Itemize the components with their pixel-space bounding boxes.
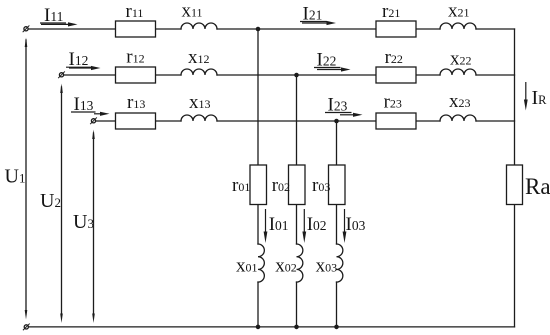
resistor Ra box xyxy=(507,165,523,205)
wire row1 right segment xyxy=(476,28,515,30)
resistor R02 box xyxy=(289,165,306,205)
junction dot row2 branch2 xyxy=(294,73,299,78)
junction dot bottom branch3 xyxy=(334,325,339,330)
resistor R23 box xyxy=(376,113,416,129)
svg-text:r13: r13 xyxy=(127,92,145,113)
terminal T1 xyxy=(23,26,29,32)
resistor R03 box xyxy=(329,165,346,205)
wire row3 left segment xyxy=(96,120,116,122)
current arrow I03 xyxy=(343,209,347,243)
resistor R22 box xyxy=(376,67,416,83)
wire row1 between r21 and x21 xyxy=(416,28,440,30)
wire right vertical lower xyxy=(514,205,516,327)
inductor x22 coil xyxy=(440,69,476,75)
wire branch2 lower xyxy=(296,282,298,327)
junction dot row1 branch1 xyxy=(256,27,261,32)
wire row1 between r11 and x11 xyxy=(156,28,182,30)
resistor R13 box xyxy=(116,113,156,129)
svg-text:r03: r03 xyxy=(312,175,330,196)
resistor R01 box xyxy=(250,165,267,205)
label I11 xyxy=(40,5,66,26)
wire branch3 lower xyxy=(336,282,338,327)
wire bottom bus xyxy=(29,326,515,328)
svg-text:I02: I02 xyxy=(307,214,327,235)
label I13 xyxy=(71,94,96,115)
wire branch2 vertical upper xyxy=(296,75,298,165)
junction dot bottom branch2 xyxy=(294,325,299,330)
svg-text:x11: x11 xyxy=(182,1,203,22)
wire row2 between r12 and x12 xyxy=(156,74,182,76)
inductor x01 coil xyxy=(258,244,264,282)
wire branch2 between r02 and x02 xyxy=(296,205,298,245)
wire row2 left segment xyxy=(64,74,116,76)
wire row3 between r13 and x13 xyxy=(156,120,182,122)
U2 arrowhead up xyxy=(60,84,63,94)
wire row2 right segment xyxy=(476,74,515,76)
svg-text:r21: r21 xyxy=(382,1,400,22)
wire branch3 between r03 and x03 xyxy=(336,205,338,245)
current arrow I23 xyxy=(340,113,363,117)
svg-text:x01: x01 xyxy=(236,256,258,277)
current arrow I11 xyxy=(41,22,78,26)
svg-text:r01: r01 xyxy=(232,175,250,196)
svg-text:r02: r02 xyxy=(272,175,290,196)
wire row2 from x12 to r22 xyxy=(217,74,376,76)
U3 arrowhead down xyxy=(92,314,95,324)
U2 arrowhead down xyxy=(60,314,63,324)
terminal T2 xyxy=(59,72,65,78)
current arrow I02 xyxy=(302,209,306,243)
svg-text:x23: x23 xyxy=(449,91,471,112)
svg-text:r12: r12 xyxy=(126,47,144,68)
junction dot bottom branch1 xyxy=(256,325,261,330)
U1 arrowhead down xyxy=(25,310,28,320)
svg-text:x03: x03 xyxy=(316,256,338,277)
label I22 xyxy=(314,50,341,71)
svg-text:x21: x21 xyxy=(448,1,470,22)
label I12 xyxy=(66,49,92,70)
svg-text:r11: r11 xyxy=(126,1,144,22)
voltage arrow U2 line xyxy=(61,87,63,315)
svg-text:I01: I01 xyxy=(269,214,289,235)
inductor x23 coil xyxy=(440,115,476,121)
voltage arrow U1 line xyxy=(25,40,27,311)
wire row3 from x13 to r23 xyxy=(217,120,376,122)
svg-text:U2: U2 xyxy=(40,190,61,212)
label I23 xyxy=(325,95,352,116)
svg-text:I03: I03 xyxy=(346,214,366,235)
junction dot row3 branch3 xyxy=(334,119,339,124)
wire row2 between r22 and x22 xyxy=(416,74,440,76)
svg-text:Ra: Ra xyxy=(525,174,550,199)
svg-text:x13: x13 xyxy=(189,92,211,113)
resistor R11 box xyxy=(116,21,156,37)
terminal T3 xyxy=(91,118,97,124)
terminal T0 bottom xyxy=(23,324,29,330)
current arrow I12 xyxy=(69,66,101,70)
U1 arrowhead up xyxy=(25,38,28,48)
wire branch1 vertical upper xyxy=(257,29,259,165)
wire row3 between r23 and x23 xyxy=(416,120,440,122)
svg-text:U3: U3 xyxy=(73,211,94,233)
inductor x03 coil xyxy=(337,244,343,282)
resistor R21 box xyxy=(376,21,416,37)
svg-text:r22: r22 xyxy=(385,47,403,68)
inductor x12 coil xyxy=(181,69,217,75)
current arrow IR xyxy=(524,82,528,111)
inductor x21 coil xyxy=(440,23,476,29)
resistor R12 box xyxy=(116,67,156,83)
label I21 xyxy=(300,4,327,25)
svg-text:IR: IR xyxy=(532,87,548,109)
current arrow I21 xyxy=(302,21,336,25)
wire branch3 vertical upper xyxy=(336,121,338,165)
voltage arrow U3 line xyxy=(93,133,95,315)
current arrow I01 xyxy=(264,209,268,243)
wire right vertical upper xyxy=(514,29,516,165)
inductor x11 coil xyxy=(181,23,217,29)
current arrow I22 xyxy=(317,67,351,71)
svg-text:x22: x22 xyxy=(450,49,472,70)
inductor x13 coil xyxy=(181,115,217,121)
inductor x02 coil xyxy=(297,244,303,282)
wire branch1 lower xyxy=(257,282,259,327)
wire row1 from x11 to r21 xyxy=(217,28,376,30)
current arrow I13 xyxy=(94,112,110,116)
wire row3 right segment xyxy=(476,120,515,122)
U3 arrowhead up xyxy=(92,130,95,140)
svg-text:x12: x12 xyxy=(188,47,210,68)
svg-text:x02: x02 xyxy=(275,256,297,277)
wire branch1 between r01 and x01 xyxy=(257,205,259,245)
svg-text:U1: U1 xyxy=(5,165,26,187)
svg-text:r23: r23 xyxy=(384,92,402,113)
wire row1 left segment xyxy=(28,28,116,30)
